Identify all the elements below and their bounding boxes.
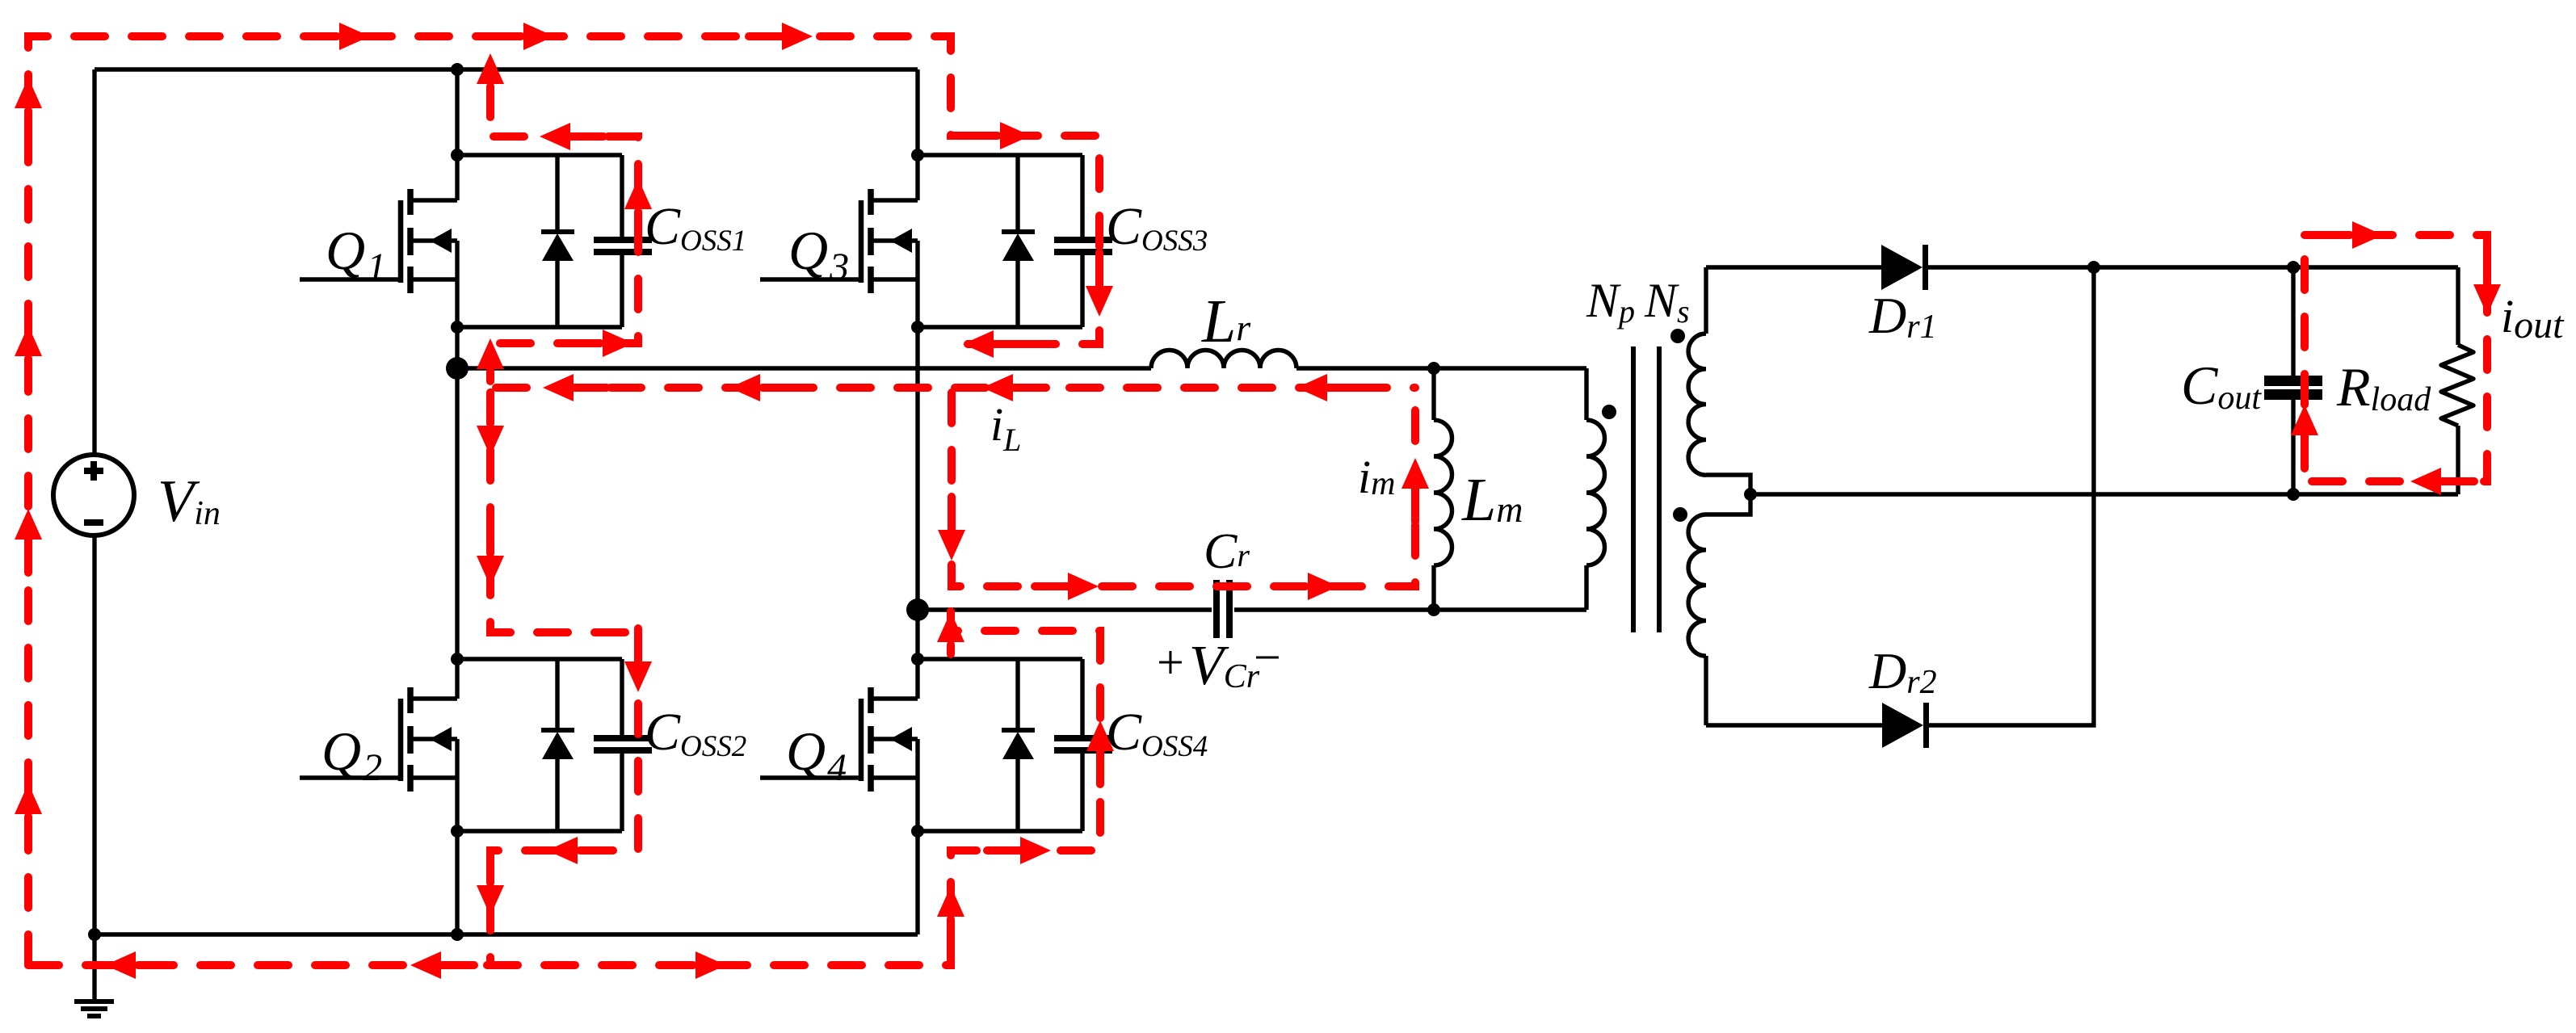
red arrow: magnetizing loop right toward Cr (1): [1031, 573, 1099, 600]
red arrow: C_OSS1 loop bottom right: [565, 330, 633, 357]
node: Lm top junction: [1427, 362, 1440, 375]
red arrow: bottom rail left (2): [410, 951, 478, 979]
svg-text:+: +: [1157, 636, 1184, 689]
red arrow: up from bottom rail into C_OSS4 loop: [937, 886, 964, 954]
node: center tap: [1744, 488, 1757, 501]
output capacitance C_OSS of Q2: [594, 735, 652, 754]
red current path: output loop through Rload: [2305, 235, 2487, 481]
wire: Dr1 cathode to output positive: [1928, 265, 2458, 269]
red arrow: magnetizing loop down at left: [938, 493, 965, 561]
wire: Cr to Lm bottom / primary bottom: [1234, 607, 1586, 611]
node B: right bridge midpoint: [906, 598, 929, 621]
wire: left input branch (Vin bottom): [92, 535, 96, 934]
wire: top rail corner down to Q3 drain: [915, 69, 919, 155]
wire: node A to resonant inductor Lr: [457, 366, 1151, 370]
wire: Q1 drain connection to top rail: [455, 69, 459, 155]
red arrow: left leg down (2): [477, 519, 504, 586]
red current path: bottom rail and C_OSS4 discharge loop: [28, 611, 1100, 965]
node: bottom-left junction: [88, 928, 101, 941]
red arrow: Q1 drain up to top rail: [477, 53, 504, 121]
resistor Rload: [2441, 267, 2473, 494]
node: drain of Q2: [451, 653, 464, 666]
red arrow: i_L left (1): [543, 374, 611, 401]
node: source of Q2: [451, 825, 464, 838]
inductor Lr: [1151, 351, 1296, 369]
transistor Q1: [300, 155, 622, 327]
wire: node B to resonant capacitor Cr: [918, 607, 1212, 611]
wire: center tap to output return: [1750, 492, 2458, 496]
red arrow: down through C_OSS2: [624, 624, 652, 692]
red arrow: left leg down (1): [477, 388, 504, 456]
node: source of Q3: [911, 321, 924, 334]
node: source of Q1: [451, 321, 464, 334]
red arrow: up through C_OSS4: [1086, 720, 1114, 788]
primary polarity dot: [1602, 405, 1616, 419]
wire: Lr to transformer primary top: [1296, 366, 1586, 370]
transistor Q3: [760, 155, 1082, 327]
red arrow: output loop bottom left: [2410, 468, 2478, 495]
wire: left input branch (Vin top): [92, 69, 96, 456]
wire: top DC bus rail: [95, 67, 918, 71]
red arrow: C_OSS3 loop bottom left: [963, 330, 1031, 358]
red arrow: up left outer loop (2): [15, 325, 42, 393]
red arrow: output loop top right: [2315, 221, 2383, 249]
transformer secondary winding Ns (top half): [1688, 267, 1706, 475]
red current path: left leg to C_OSS2 charge loop: [490, 393, 638, 960]
wire: secondary center tap step: [1706, 475, 1750, 514]
svg-text:−: −: [1254, 631, 1281, 684]
output capacitance C_OSS of Q3: [1054, 237, 1112, 255]
wire: Q2 source to bottom rail: [455, 831, 459, 934]
red current path: magnetizing loop through Lm and Cr: [952, 393, 1415, 586]
wire: bottom return rail: [95, 932, 918, 936]
red arrow: C_OSS1 loop top left: [540, 123, 607, 150]
red arrow: bottom rail left (1): [105, 951, 173, 979]
red arrow: i_m up through Lm: [1401, 458, 1429, 526]
node: rectifier output junction: [2087, 261, 2100, 274]
wire: Q1 source to Q2 drain (left leg): [455, 327, 459, 659]
node: Lm bottom junction: [1427, 603, 1440, 616]
red arrow: left leg down to bottom rail: [477, 848, 504, 916]
magnetizing inductance Lm: [1434, 368, 1452, 610]
red arrow: up through C_OSS1: [624, 178, 652, 246]
node: drain of Q1: [451, 149, 464, 162]
node: drain of Q4: [911, 653, 924, 666]
red arrow: into C_OSS3 loop right: [963, 122, 1031, 149]
label +VCr-: [1157, 631, 1281, 697]
red arrow: i_L left (3): [982, 374, 1050, 401]
diode Dr2: [1882, 703, 1929, 748]
diode Dr1: [1881, 245, 1928, 290]
red arrow: up left outer loop (4): [15, 783, 42, 851]
capacitor Cr: [1213, 580, 1233, 638]
node: Cout top junction: [2287, 261, 2300, 274]
red arrow: C_OSS2 loop bottom left: [547, 837, 615, 864]
red arrow: C_OSS4 loop up to node B: [937, 611, 964, 658]
red arrow: magnetizing loop right toward Cr (2): [1271, 573, 1338, 600]
secondary polarity dot (bottom): [1673, 507, 1687, 522]
red arrow: node A up into C_OSS1 loop: [477, 338, 504, 385]
red current path: resonant current i_L return line: [496, 384, 1415, 392]
red current path: C_OSS1 discharge loop: [494, 136, 638, 343]
voltage source Vin: [53, 455, 134, 535]
wire: secondary bottom to rectifier Dr2: [1706, 723, 1883, 727]
wire: Q4 source to bottom rail: [915, 831, 919, 934]
body diode of Q4: [1002, 659, 1035, 831]
node A: left bridge midpoint: [446, 357, 469, 380]
node: bottom rail / Q2 bus junction: [451, 928, 464, 941]
node: Cout bottom junction: [2287, 488, 2300, 501]
wire: secondary top to rectifier Dr1: [1706, 265, 1882, 269]
red arrow: C_OSS4 loop bottom right: [983, 837, 1051, 864]
node: source of Q4: [911, 825, 924, 838]
red arrow: bottom rail right toward Q4: [658, 951, 726, 979]
capacitor Cout: [2264, 267, 2322, 494]
body diode of Q1: [541, 155, 574, 327]
red arrow: top rail right (3): [745, 23, 813, 50]
node: top rail / Q1 bus junction: [451, 63, 464, 76]
red arrow: up left outer loop (3): [15, 509, 42, 577]
red arrow: output loop up through Cout branch: [2291, 405, 2318, 472]
body diode of Q3: [1002, 155, 1035, 327]
node: drain of Q3: [911, 149, 924, 162]
wire: Dr2 cathode up to output positive: [1928, 267, 2094, 725]
transistor Q4: [760, 659, 1082, 831]
ground: [74, 934, 114, 1016]
red arrow: output loop down through Rload: [2473, 247, 2501, 315]
output capacitance C_OSS of Q4: [1054, 735, 1112, 754]
transformer core: [1633, 346, 1659, 632]
red arrow: up left outer loop (1): [15, 78, 42, 145]
red arrow: top rail right (1): [302, 23, 370, 50]
transformer primary winding Np: [1586, 368, 1605, 610]
wire: Q3 source to Q4 drain (right leg): [915, 327, 919, 659]
red arrow: top rail right (2): [486, 23, 554, 50]
red arrow: i_L left (2): [729, 374, 797, 401]
output capacitance C_OSS of Q1: [594, 237, 652, 255]
body diode of Q2: [541, 659, 574, 831]
red arrow: down through C_OSS3: [1086, 249, 1113, 317]
transformer secondary winding Ns (bottom half): [1688, 514, 1706, 725]
secondary polarity dot (top): [1670, 329, 1685, 343]
transistor Q2: [300, 659, 622, 831]
red current path: input outer loop and C_OSS3 charge loop: [28, 36, 1099, 965]
red arrow: i_L left (4): [1296, 374, 1364, 401]
